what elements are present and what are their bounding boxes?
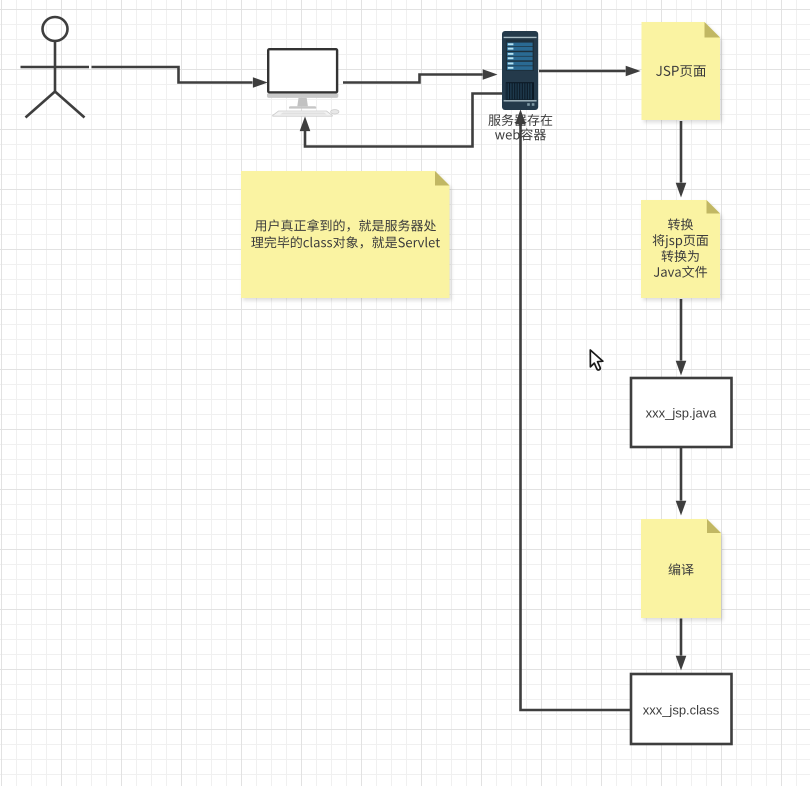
svg-text:xxx_jsp.java: xxx_jsp.java <box>646 406 718 421</box>
wire server to monitor feedback <box>300 94 502 147</box>
box xxx_jsp.java <box>631 378 732 447</box>
wire compile note to class box <box>676 619 685 670</box>
label 编译 <box>669 563 694 575</box>
wire java box to compile note <box>676 448 685 514</box>
server tower icon <box>502 31 538 110</box>
label 转换 note lines <box>653 218 709 277</box>
wire server to JSP note <box>539 66 639 75</box>
note big servlet explanation <box>241 171 450 298</box>
monitor computer icon <box>267 48 339 116</box>
wire class box back to server <box>516 111 631 710</box>
wire JSP note to convert note <box>676 121 685 196</box>
wire monitor to server <box>343 70 496 83</box>
label big note text <box>251 219 440 248</box>
label JSP页面 <box>656 65 706 77</box>
label server caption line1 服务器存在 <box>488 114 552 126</box>
wire convert note to java box <box>676 299 685 374</box>
svg-text:xxx_jsp.class: xxx_jsp.class <box>643 703 720 718</box>
actor user stick figure <box>21 17 90 118</box>
note JSP page <box>642 22 721 120</box>
box xxx_jsp.class <box>631 674 732 744</box>
note convert description <box>641 200 720 298</box>
label server caption line2 web容器 <box>495 128 546 140</box>
mouse cursor <box>590 350 603 370</box>
note compile <box>641 519 721 618</box>
wire actor to monitor <box>92 67 267 87</box>
